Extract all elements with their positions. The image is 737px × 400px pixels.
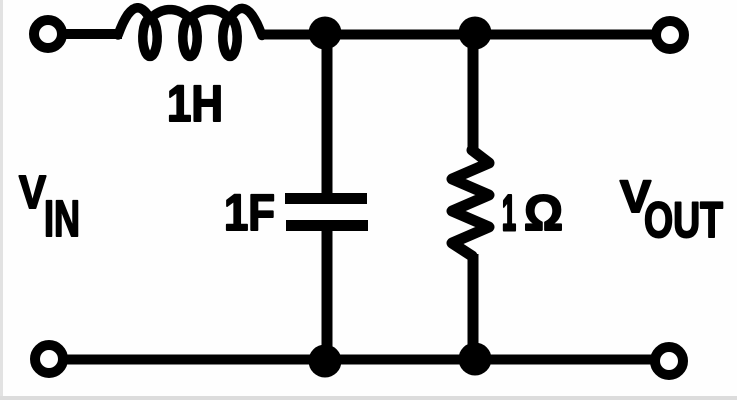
wire: capacitor bottom lead <box>322 225 333 359</box>
wire: resistor top lead <box>468 34 479 152</box>
svg-text:OUT: OUT <box>644 192 723 248</box>
terminal: output bottom (open circle) <box>655 347 683 375</box>
terminal: input bottom (open circle) <box>35 345 63 373</box>
junction node: bottom-resistor <box>459 343 492 376</box>
junction node: bottom-capacitor <box>309 345 342 378</box>
wire: bottom rail <box>66 355 652 365</box>
svg-text:IN: IN <box>44 190 80 247</box>
svg-text:V: V <box>19 166 46 218</box>
junction node: top-resistor <box>459 17 492 50</box>
capacitor C1 bottom plate <box>286 220 368 231</box>
wire: capacitor top lead <box>322 34 333 194</box>
svg-text:1: 1 <box>502 185 516 241</box>
svg-text:Ω: Ω <box>524 185 563 241</box>
wire: resistor bottom lead <box>468 254 479 360</box>
junction node: top-capacitor <box>309 17 342 50</box>
resistor R1 zigzag 1 ohm <box>452 150 489 256</box>
wire: top rail from inductor to output terminal <box>260 30 653 40</box>
terminal: output top (open circle) <box>656 21 684 49</box>
capacitor C1 top plate <box>285 193 367 204</box>
wire: input terminal to inductor <box>64 29 122 39</box>
terminal: input top (open circle) <box>34 20 62 48</box>
svg-text:1H: 1H <box>167 75 223 132</box>
svg-text:1F: 1F <box>224 184 275 241</box>
inductor L1 coil 1H <box>118 8 262 57</box>
